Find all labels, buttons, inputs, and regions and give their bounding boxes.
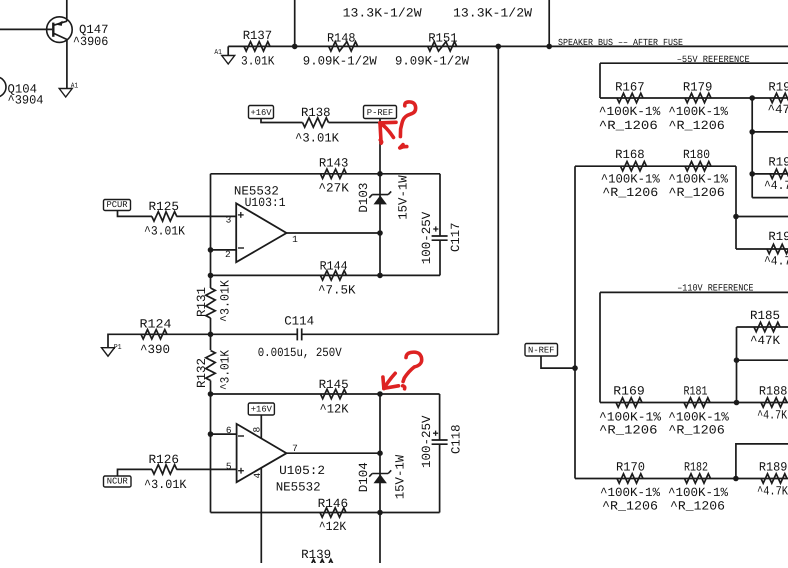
node R144 rail junction bbox=[208, 273, 214, 279]
wire C114 to bus bbox=[497, 46, 499, 334]
svg-text:A1: A1 bbox=[214, 49, 222, 57]
svg-text:3.01K: 3.01K bbox=[241, 54, 275, 68]
svg-text:15V-1W: 15V-1W bbox=[393, 454, 407, 499]
pin 4 stub bbox=[260, 468, 262, 563]
svg-text:R125: R125 bbox=[149, 200, 180, 214]
node D104/R146 rail bbox=[377, 510, 383, 516]
node D103/R144 rail bbox=[377, 273, 383, 279]
node R179 out bbox=[749, 95, 755, 101]
svg-text:^3.01K: ^3.01K bbox=[219, 350, 233, 390]
svg-text:^27K: ^27K bbox=[318, 182, 349, 196]
svg-text:^100K-1%: ^100K-1% bbox=[668, 105, 728, 119]
svg-text:^12K: ^12K bbox=[320, 402, 349, 416]
wire D104 branch down to edge bbox=[379, 394, 381, 563]
svg-text:^100K-1%: ^100K-1% bbox=[599, 105, 661, 119]
svg-text:^7.5K: ^7.5K bbox=[318, 283, 356, 297]
zener D103 bbox=[372, 194, 388, 196]
node R181 out bbox=[734, 400, 740, 406]
svg-text:0.0015u, 250V: 0.0015u, 250V bbox=[258, 346, 342, 360]
svg-text:^3.01K: ^3.01K bbox=[295, 132, 339, 146]
wire collector Q147 down bbox=[66, 39, 68, 88]
svg-text:P1: P1 bbox=[114, 344, 122, 352]
zener D104 bbox=[372, 473, 388, 475]
svg-text:^R_1206: ^R_1206 bbox=[602, 186, 658, 200]
svg-text:^R_1206: ^R_1206 bbox=[599, 423, 658, 437]
port NCUR bbox=[104, 476, 132, 487]
wire pin3 (from R125) bbox=[177, 215, 237, 217]
power +16V (R138) bbox=[249, 106, 274, 119]
wire -110V heading bbox=[600, 291, 788, 293]
svg-text:^3904: ^3904 bbox=[8, 93, 44, 107]
svg-text:^4.7K: ^4.7K bbox=[757, 409, 787, 423]
wire -110V left drop bbox=[599, 292, 601, 402]
pin 3 marks bbox=[238, 214, 244, 216]
svg-text:^R_1206: ^R_1206 bbox=[668, 186, 725, 200]
svg-text:A1: A1 bbox=[71, 83, 79, 91]
svg-text:R138: R138 bbox=[301, 106, 331, 120]
svg-text:R126: R126 bbox=[149, 453, 180, 467]
node pin6 junction bbox=[208, 431, 214, 437]
wire R146 rail bbox=[211, 512, 440, 514]
node branch (y=216.5) bbox=[733, 214, 739, 220]
wire output pin7 bbox=[287, 452, 381, 454]
svg-text:+16V: +16V bbox=[251, 405, 273, 415]
node branch 1 bbox=[749, 129, 755, 135]
svg-text:^47K: ^47K bbox=[768, 103, 788, 117]
resistor R145 bbox=[321, 389, 347, 398]
wire output pin1 bbox=[287, 232, 381, 234]
resistor R151 bbox=[428, 42, 457, 51]
svg-text:^R_1206: ^R_1206 bbox=[668, 119, 725, 133]
resistor R126 bbox=[152, 465, 177, 474]
resistor R137 bbox=[244, 42, 270, 51]
svg-text:^4.7K: ^4.7K bbox=[764, 179, 788, 193]
op-amp U103:1 bbox=[236, 203, 286, 262]
svg-text:P-REF: P-REF bbox=[367, 108, 393, 118]
svg-text:R191: R191 bbox=[768, 80, 788, 94]
resistor R124 bbox=[141, 333, 211, 335]
svg-text:^100K-1%: ^100K-1% bbox=[600, 486, 660, 500]
svg-text:R189: R189 bbox=[759, 461, 788, 475]
svg-text:^3.01K: ^3.01K bbox=[144, 478, 187, 492]
node output/D103 bbox=[377, 230, 383, 236]
wire N-REF spine bbox=[574, 166, 576, 478]
ground A1 (bus left) bbox=[227, 46, 229, 55]
red annotation: question mark at R145 bbox=[403, 352, 422, 389]
wire -55V left drop bbox=[599, 63, 601, 98]
svg-text:5: 5 bbox=[226, 461, 232, 472]
svg-text:^3906: ^3906 bbox=[73, 35, 109, 49]
red annotation: arrow at P-REF node bbox=[380, 122, 396, 143]
node C114/R124/R131/R132 bbox=[208, 332, 214, 338]
wire pin2 bbox=[211, 249, 237, 251]
resistor R167 bbox=[617, 93, 643, 102]
svg-text:R167: R167 bbox=[615, 80, 645, 94]
svg-text:PCUR: PCUR bbox=[106, 200, 128, 210]
svg-text:R151: R151 bbox=[428, 31, 458, 45]
wire D103 branch bbox=[379, 174, 381, 276]
svg-text:R170: R170 bbox=[616, 461, 645, 475]
svg-text:^100K-1%: ^100K-1% bbox=[601, 172, 660, 186]
svg-text:^100K-1%: ^100K-1% bbox=[599, 410, 662, 424]
wire pin5 (from R126) bbox=[177, 468, 237, 470]
node R145/D104 junction bbox=[377, 391, 383, 397]
svg-text:R181: R181 bbox=[684, 384, 708, 398]
svg-text:100-25V: 100-25V bbox=[420, 415, 434, 468]
capacitor C117 bbox=[439, 174, 441, 236]
pin 2 marks bbox=[238, 247, 244, 249]
svg-text:13.3K-1/2W: 13.3K-1/2W bbox=[453, 7, 533, 21]
svg-text:13.3K-1/2W: 13.3K-1/2W bbox=[343, 7, 423, 21]
svg-text:6: 6 bbox=[226, 425, 232, 436]
svg-text:15V-1W: 15V-1W bbox=[396, 175, 410, 220]
svg-text:R169: R169 bbox=[613, 384, 645, 398]
svg-text:R192: R192 bbox=[768, 155, 788, 169]
resistor R182 bbox=[685, 474, 711, 483]
resistor R185 branch bbox=[736, 327, 738, 403]
svg-text:^100K-1%: ^100K-1% bbox=[668, 172, 728, 186]
pin 5 marks bbox=[238, 470, 244, 472]
wire R138 to P-REF node bbox=[329, 122, 381, 124]
svg-text:^100K-1%: ^100K-1% bbox=[668, 410, 729, 424]
svg-text:^12K: ^12K bbox=[319, 520, 347, 534]
transistor Q147 bbox=[47, 17, 73, 43]
svg-text:R179: R179 bbox=[683, 80, 713, 94]
resistor R146 bbox=[320, 508, 346, 517]
svg-text:D103: D103 bbox=[357, 183, 371, 213]
svg-text:^R_1206: ^R_1206 bbox=[668, 423, 725, 437]
resistor R170 bbox=[617, 474, 643, 483]
node R185 branch mid bbox=[734, 357, 740, 363]
svg-text:NE5532: NE5532 bbox=[276, 480, 321, 494]
svg-text:R137: R137 bbox=[243, 29, 273, 43]
svg-text:R139: R139 bbox=[301, 548, 331, 562]
wire left spine upper bbox=[210, 174, 212, 288]
svg-text:9.09K-1/2W: 9.09K-1/2W bbox=[303, 55, 377, 69]
svg-text:R185: R185 bbox=[750, 309, 780, 323]
svg-text:^390: ^390 bbox=[140, 343, 170, 357]
svg-text:N-REF: N-REF bbox=[528, 346, 554, 356]
wire R170 row bbox=[575, 478, 788, 480]
svg-text:^3.01K: ^3.01K bbox=[219, 280, 233, 322]
svg-text:8: 8 bbox=[252, 427, 263, 433]
svg-text:R145: R145 bbox=[319, 378, 349, 392]
resistor R168 bbox=[621, 162, 647, 171]
wire/resistor R19x bottom row (cut) bbox=[736, 248, 788, 250]
svg-text:R182: R182 bbox=[684, 461, 708, 475]
wire +16V to R138 bbox=[261, 119, 303, 123]
node top rail left (U105) bbox=[208, 391, 214, 397]
resistor R181 bbox=[684, 398, 710, 407]
resistor R131 (vertical) bbox=[206, 288, 215, 318]
svg-text:D104: D104 bbox=[357, 462, 371, 492]
svg-text:U105:2: U105:2 bbox=[279, 464, 325, 478]
node P-REF bbox=[364, 106, 397, 119]
resistor R189 bbox=[761, 474, 787, 483]
node junction bus/R148 bbox=[292, 44, 298, 50]
wire pin6 bbox=[211, 433, 237, 435]
svg-text:R124: R124 bbox=[140, 318, 172, 332]
svg-text:^R_1206: ^R_1206 bbox=[602, 500, 658, 514]
resistor R143 bbox=[320, 169, 346, 178]
svg-text:100-25V: 100-25V bbox=[420, 211, 434, 264]
node R182 out bbox=[733, 476, 739, 482]
node output/D104 bbox=[377, 450, 383, 456]
svg-text:R132: R132 bbox=[195, 358, 209, 388]
svg-text:NCUR: NCUR bbox=[107, 477, 129, 487]
svg-text:1: 1 bbox=[292, 234, 298, 245]
power +16V (U105 pin 8) bbox=[248, 403, 274, 415]
svg-text:R180: R180 bbox=[683, 148, 710, 162]
wire R189 branch up bbox=[736, 444, 788, 479]
svg-text:9.09K-1/2W: 9.09K-1/2W bbox=[395, 55, 469, 69]
svg-text:SPEAKER BUS –– AFTER FUSE: SPEAKER BUS –– AFTER FUSE bbox=[558, 37, 683, 48]
svg-text:R168: R168 bbox=[615, 148, 645, 162]
wire to 13.3K resistor 2 bbox=[548, 0, 550, 46]
wire right column (-55V) bbox=[751, 98, 753, 198]
svg-text:^4.7K: ^4.7K bbox=[757, 485, 788, 499]
wire -55V heading bbox=[600, 62, 788, 64]
wire spine R132 to rail bbox=[210, 381, 212, 395]
svg-text:+16V: +16V bbox=[250, 108, 272, 118]
red annotation: arrow at R145 node bbox=[383, 373, 399, 388]
svg-text:^47K: ^47K bbox=[750, 334, 780, 348]
resistor R144 bbox=[320, 271, 346, 280]
wire spine R131-node bbox=[210, 318, 212, 350]
capacitor C118 bbox=[439, 394, 441, 440]
pin 6 marks bbox=[238, 435, 244, 437]
wire R168 row bbox=[575, 165, 736, 167]
svg-text:^100K-1%: ^100K-1% bbox=[668, 486, 728, 500]
svg-text:^3.01K: ^3.01K bbox=[144, 224, 185, 238]
resistor R19x (top, cut) bbox=[770, 93, 788, 102]
svg-text:4: 4 bbox=[252, 473, 263, 479]
port PCUR bbox=[104, 200, 131, 211]
node branch 2 / resistor R19x (cut) bbox=[749, 171, 755, 177]
node junction bus/13.3K(2) bbox=[546, 44, 552, 50]
svg-text:R131: R131 bbox=[195, 287, 209, 317]
svg-text:R144: R144 bbox=[320, 259, 348, 273]
wire base of Q147 bbox=[0, 28, 52, 30]
node junction bus/C114 branch bbox=[496, 44, 502, 50]
resistor R148 bbox=[329, 42, 358, 51]
svg-text:U103:1: U103:1 bbox=[245, 196, 286, 210]
resistor R138 bbox=[303, 118, 329, 127]
wire speaker bus bbox=[228, 45, 788, 47]
svg-text:R143: R143 bbox=[319, 156, 349, 170]
transistor Q104 (partial at edge) bbox=[0, 77, 6, 97]
wire top rail (R145 row) bbox=[211, 393, 440, 395]
svg-text:^4.7K: ^4.7K bbox=[764, 255, 788, 269]
svg-text:R188: R188 bbox=[759, 384, 788, 398]
resistor R125 bbox=[152, 212, 177, 221]
node pin2 junction bbox=[208, 247, 214, 253]
ground A1 (Q147) bbox=[59, 89, 72, 98]
red annotation: question mark at P-REF bbox=[400, 102, 416, 148]
capacitor C114 bbox=[211, 333, 298, 335]
svg-text:^R_1206: ^R_1206 bbox=[670, 500, 725, 514]
wire P-REF node down bbox=[379, 123, 381, 174]
svg-text:R146: R146 bbox=[318, 497, 349, 511]
wire to 13.3K resistor 1 bbox=[294, 0, 296, 46]
ground P1 bbox=[108, 334, 141, 347]
node N-REF junction bbox=[572, 365, 578, 371]
resistor R169 bbox=[616, 398, 642, 407]
resistor R132 (vertical) bbox=[206, 351, 215, 381]
svg-text:7: 7 bbox=[292, 443, 298, 454]
wire left spine lower bbox=[210, 394, 212, 513]
svg-text:R148: R148 bbox=[327, 31, 356, 45]
svg-text:R193: R193 bbox=[768, 230, 788, 244]
resistor R180 bbox=[685, 162, 711, 171]
wire top rail (R143 row) bbox=[211, 173, 441, 175]
svg-text:C117: C117 bbox=[449, 223, 463, 253]
resistor R188 bbox=[761, 398, 787, 407]
svg-text:C114: C114 bbox=[284, 315, 314, 329]
svg-text:C118: C118 bbox=[450, 425, 464, 455]
wire emitter Q147 up bbox=[66, 0, 68, 21]
node P-REF/top rail junction bbox=[377, 171, 383, 177]
op-amp U105:2 bbox=[237, 424, 287, 482]
wire R167 row bbox=[600, 97, 788, 99]
port N-REF bbox=[525, 344, 558, 357]
wire branch 3 bbox=[752, 197, 788, 199]
resistor R179 bbox=[685, 93, 711, 102]
svg-text:^R_1206: ^R_1206 bbox=[599, 119, 658, 133]
wire R144 rail bbox=[211, 274, 441, 276]
wire R169 row bbox=[600, 402, 788, 404]
wire R180 column bbox=[735, 166, 737, 249]
